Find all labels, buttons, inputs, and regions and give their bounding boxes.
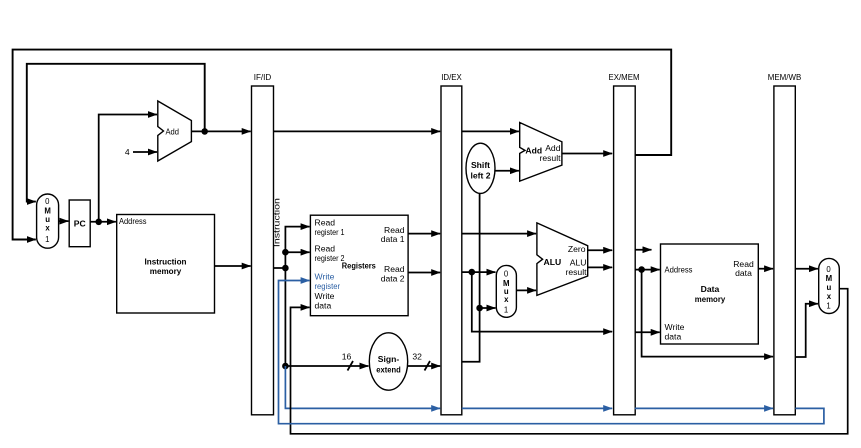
- svg-text:MEM/WB: MEM/WB: [768, 72, 802, 82]
- wire mux to PC: [59, 220, 69, 222]
- wire Zero stub out of EX/MEM: [635, 249, 652, 251]
- svg-text:register 1: register 1: [315, 227, 345, 237]
- svg-text:1: 1: [826, 301, 830, 310]
- svg-text:0: 0: [826, 265, 831, 274]
- svg-text:data 1: data 1: [381, 234, 405, 244]
- wire instruction vertical bus: [285, 227, 309, 366]
- junction read register 2 branch: [282, 249, 289, 256]
- wire ID/EX read data 2 to ALUSrc mux input 0: [462, 271, 496, 273]
- wire ID/EX read data 1 to ALU: [462, 233, 536, 235]
- junction Add output: [201, 128, 208, 135]
- wire ID/EX PC+4 to branch adder: [462, 130, 519, 132]
- data memory box: [661, 244, 759, 344]
- svg-text:Sign-: Sign-: [378, 354, 400, 364]
- wire sign-extended to ALUSrc mux input 1: [480, 307, 496, 309]
- svg-text:Shift: Shift: [471, 160, 490, 170]
- svg-text:Address: Address: [665, 265, 693, 275]
- shift left 2 unit: [466, 143, 495, 193]
- wire ALU Zero to EX/MEM: [588, 249, 613, 251]
- svg-text:u: u: [827, 283, 832, 292]
- svg-text:Write: Write: [315, 291, 335, 301]
- svg-text:32: 32: [412, 352, 422, 362]
- adder branch Add: [520, 123, 562, 182]
- wire instruction to Read register 2: [285, 251, 309, 253]
- svg-text:0: 0: [504, 270, 509, 279]
- wire IF/ID PC+4 to ID/EX: [274, 130, 441, 132]
- svg-text:register: register: [315, 281, 341, 291]
- PC register box: [69, 200, 90, 247]
- svg-text:Registers: Registers: [342, 261, 376, 271]
- svg-text:x: x: [504, 295, 509, 304]
- svg-text:1: 1: [45, 235, 49, 244]
- wire data memory Read data to MEM/WB: [758, 268, 773, 270]
- wire sign-extend to ID/EX: [408, 365, 441, 367]
- svg-text:Data: Data: [701, 284, 720, 294]
- wire ID/EX sign-extended up to shift left 2: [462, 193, 480, 361]
- svg-text:Instruction: Instruction: [271, 198, 281, 247]
- svg-text:extend: extend: [376, 364, 401, 374]
- pipeline register IF/ID: [252, 86, 274, 415]
- svg-text:data: data: [735, 268, 752, 278]
- wire branch target loop from EX/MEM to PC mux input 1: [13, 50, 672, 240]
- svg-text:0: 0: [45, 197, 50, 206]
- wire PC up to Add top input: [99, 115, 157, 222]
- mux ALUSrc (capsule): [496, 265, 516, 317]
- wire ALU result bypass down to MEM/WB: [642, 270, 774, 357]
- svg-text:data: data: [665, 331, 682, 341]
- svg-text:PC: PC: [74, 219, 86, 229]
- svg-text:Read: Read: [315, 218, 336, 228]
- mux PCSrc labels: [44, 197, 832, 315]
- wire instruction memory to IF/ID: [215, 265, 251, 267]
- svg-text:1: 1: [504, 306, 508, 315]
- tick 16-bit: [348, 361, 354, 371]
- wire PC+4 loop to PC mux input 0: [27, 64, 205, 202]
- svg-text:ALU: ALU: [544, 257, 562, 267]
- svg-text:x: x: [45, 224, 50, 233]
- svg-text:left 2: left 2: [470, 171, 490, 181]
- wire read data 2 down to EX/MEM write data: [472, 272, 612, 332]
- svg-text:16: 16: [342, 352, 352, 362]
- junction instruction feed: [282, 265, 289, 272]
- pipeline register ID/EX: [441, 86, 462, 415]
- junction sign-extended branch: [476, 305, 483, 312]
- sign-extend unit: [369, 333, 407, 390]
- wire WB mux output back to Write data of registers: [291, 289, 848, 434]
- svg-text:register 2: register 2: [315, 253, 345, 263]
- svg-text:data: data: [315, 301, 332, 311]
- svg-text:Instruction: Instruction: [145, 257, 187, 267]
- wire Add output to IF/ID: [191, 130, 250, 132]
- adder Add (PC+4): [158, 101, 192, 161]
- pipeline register EX/MEM: [614, 86, 636, 415]
- wire EX/MEM ALU result to data memory Address: [635, 269, 660, 271]
- wire ALU result to EX/MEM: [588, 266, 613, 268]
- instruction memory box: [117, 215, 215, 314]
- pipeline register MEM/WB: [774, 86, 795, 415]
- svg-text:result: result: [539, 153, 561, 163]
- svg-text:ID/EX: ID/EX: [441, 72, 462, 82]
- junction PC output: [95, 219, 102, 226]
- junction read data 2 branch: [469, 269, 476, 276]
- junction ALU result branch: [638, 266, 645, 273]
- tick 32-bit: [425, 361, 431, 371]
- wire write-register field (blue) down to ID/EX: [285, 366, 440, 408]
- svg-text:result: result: [565, 267, 587, 277]
- svg-text:Add: Add: [166, 127, 180, 137]
- svg-text:M: M: [826, 274, 833, 283]
- mux MemtoReg (capsule): [819, 258, 840, 313]
- svg-text:IF/ID: IF/ID: [254, 72, 272, 82]
- wire write-register (blue) ID/EX to EX/MEM: [462, 407, 612, 409]
- mux PCSrc (capsule): [37, 194, 59, 248]
- svg-text:4: 4: [125, 147, 130, 157]
- ALU shape: [537, 223, 588, 296]
- wire shift left 2 to branch adder: [495, 170, 519, 172]
- svg-text:ALU: ALU: [570, 258, 587, 268]
- wire branch adder result to EX/MEM: [562, 153, 612, 155]
- registers file box: [310, 215, 408, 316]
- wire IF/ID instruction feed: [274, 267, 286, 269]
- wire write-register (blue) EX/MEM to MEM/WB: [635, 407, 773, 409]
- svg-text:Read: Read: [315, 244, 336, 254]
- wire Read data 2 to ID/EX: [408, 272, 440, 274]
- svg-text:Zero: Zero: [568, 244, 586, 254]
- svg-text:x: x: [827, 292, 832, 301]
- wire write-register return (blue) to Write register port: [279, 281, 824, 424]
- wire EX/MEM write data to data memory: [635, 331, 660, 333]
- svg-text:memory: memory: [695, 294, 726, 304]
- wire PC to instruction memory Address: [90, 221, 116, 223]
- wire MEM/WB ALU result to WB mux input 1: [795, 304, 818, 357]
- junction sign-extend branch: [282, 363, 289, 370]
- wire instruction to sign-extend: [285, 365, 368, 367]
- wire Read data 1 to ID/EX: [408, 233, 440, 235]
- svg-text:EX/MEM: EX/MEM: [609, 72, 640, 82]
- wire constant 4 to Add: [133, 151, 157, 153]
- svg-text:Add: Add: [545, 143, 561, 153]
- svg-text:data 2: data 2: [381, 273, 405, 283]
- wire MEM/WB read data to WB mux input 0: [795, 268, 818, 270]
- svg-text:memory: memory: [150, 266, 182, 276]
- svg-text:Address: Address: [119, 216, 147, 226]
- svg-text:Write: Write: [315, 272, 335, 282]
- wire ALUSrc mux to ALU: [516, 289, 536, 291]
